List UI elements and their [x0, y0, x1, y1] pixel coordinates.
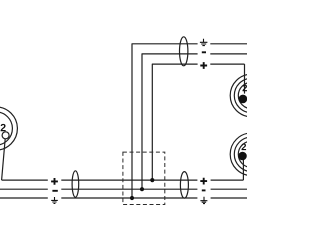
wire hot branch to J2 — [152, 64, 197, 180]
wire hot riser to J3 pin 2 — [242, 160, 244, 180]
wire hot line mid segment — [61, 179, 197, 181]
wire hot drop to J2 pin 2 — [244, 64, 246, 94]
connector J1 inner circle — [0, 112, 12, 145]
plus sign top right — [200, 62, 207, 69]
connector J2 barrel circle — [234, 78, 268, 112]
connector J2 pin 2 dot — [239, 95, 248, 104]
ground symbol bottom right — [200, 197, 207, 204]
wire shield line mid segment — [61, 197, 197, 199]
junction dot cold — [140, 187, 144, 191]
wire shield branch right segment — [210, 43, 247, 45]
ground symbol top right — [200, 39, 208, 46]
wire cold branch right segment — [210, 53, 247, 55]
wire hot line left segment — [2, 179, 48, 181]
minus sign left — [52, 190, 57, 192]
connector J3 outer shell — [230, 133, 273, 176]
label pin 2 of J3 — [242, 143, 247, 150]
ground symbol left — [51, 197, 58, 204]
cable sleeve ellipse bottom right — [180, 172, 188, 199]
wire shield line right segment — [211, 197, 247, 199]
wire cold branch to J2 — [142, 54, 198, 189]
connector J1 pin 2 socket — [2, 132, 9, 139]
connector J2 insert circle — [238, 82, 264, 108]
cable sleeve ellipse left — [72, 171, 79, 197]
connector J1 outer shell — [0, 107, 17, 150]
plus sign left — [51, 178, 58, 185]
wire cold line mid segment — [61, 188, 197, 190]
minus sign bottom right — [202, 189, 206, 191]
splitter junction dashed box — [123, 152, 165, 204]
junction dot shield — [130, 196, 134, 200]
wire cold line left segment — [0, 188, 48, 190]
cable sleeve ellipse top right — [180, 37, 188, 66]
minus sign top right — [202, 51, 206, 53]
wire shield branch to J2 — [132, 44, 198, 198]
connector J3 insert circle — [238, 141, 264, 167]
connector J3 pin 2 dot — [238, 152, 247, 161]
wire from J1 pin 2 down to hot line — [2, 139, 6, 180]
wire hot line right segment — [211, 179, 244, 181]
wire hot branch right segment — [210, 63, 244, 65]
wire cold line right segment — [211, 188, 247, 190]
plus sign bottom right — [200, 178, 207, 185]
connector J2 outer shell — [230, 74, 273, 117]
wire shield line left segment — [0, 197, 48, 199]
connector J3 barrel circle — [234, 137, 268, 171]
label pin 2 of J2 — [243, 85, 248, 92]
junction dot hot — [150, 178, 154, 182]
label pin 2 of J1 — [1, 124, 6, 131]
